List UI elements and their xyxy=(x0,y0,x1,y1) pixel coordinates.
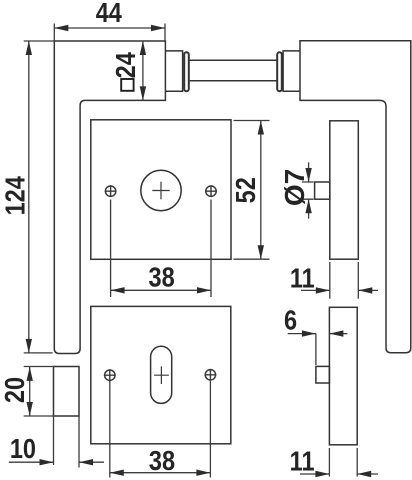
dim 20 line xyxy=(29,367,31,416)
dim 38 lower extension lines xyxy=(110,381,211,478)
dim 38 lower line xyxy=(110,472,211,474)
dim 44 extension lines xyxy=(54,24,165,43)
label sq24 square glyph xyxy=(121,79,133,91)
svg-text:38: 38 xyxy=(149,446,175,476)
svg-text:20: 20 xyxy=(0,377,30,403)
arrowheads dim 11 upper xyxy=(316,287,330,293)
handle bearing circle xyxy=(141,170,181,210)
dim 52 extension lines xyxy=(234,121,270,260)
svg-text:11: 11 xyxy=(290,446,315,476)
svg-text:24: 24 xyxy=(111,52,141,79)
handle neck left xyxy=(165,51,182,91)
spindle shaft xyxy=(189,60,277,80)
dim sq24 line xyxy=(142,41,144,100)
handle neck right xyxy=(283,51,300,91)
arrowheads dim 38 upper xyxy=(111,287,125,293)
upper rose side view xyxy=(330,121,359,259)
arrowheads dim 10 xyxy=(40,459,54,465)
spindle square side view xyxy=(315,182,330,199)
dim 6 extension line xyxy=(315,334,317,365)
screw lower-left xyxy=(104,369,116,381)
dim dia7 lines xyxy=(308,162,310,218)
thumbturn block front view xyxy=(54,367,80,417)
dim 10 lines xyxy=(9,461,104,463)
arrowheads dim 20 xyxy=(27,367,33,381)
bearing cross xyxy=(152,182,169,199)
dim 124 extension lines xyxy=(24,41,56,353)
svg-text:Ø7: Ø7 xyxy=(279,169,310,206)
dim 124 line xyxy=(28,41,30,353)
screw upper-right xyxy=(205,185,217,197)
dim 52 line xyxy=(260,121,262,260)
dim 10 extension lines xyxy=(54,416,80,468)
dim 11 lower extension lines xyxy=(329,448,357,477)
arrowheads dim 11 lower xyxy=(315,471,329,477)
dim 11 upper extension lines xyxy=(330,262,359,299)
arrowheads dim dia7 xyxy=(305,168,311,182)
dim 20 extension lines xyxy=(24,367,55,417)
dim 6 lines xyxy=(288,333,348,335)
dim 11 upper lines xyxy=(301,289,378,291)
lever handle side view (head + grip) xyxy=(300,41,411,353)
arrowheads dim 44 xyxy=(54,25,68,31)
lower rose side view xyxy=(329,307,357,445)
screw lower-right xyxy=(205,369,217,381)
svg-text:11: 11 xyxy=(290,263,315,293)
arrowheads dim 124 xyxy=(26,41,32,55)
dim dia7 extension lines xyxy=(302,182,314,199)
svg-text:44: 44 xyxy=(96,0,123,29)
dim 11 lower lines xyxy=(300,473,378,475)
dim 38 upper extension lines xyxy=(111,200,211,298)
svg-text:124: 124 xyxy=(1,176,31,216)
arrowheads dim sq24 xyxy=(140,41,146,55)
svg-text:52: 52 xyxy=(231,177,261,203)
cylinder stub side view xyxy=(316,366,330,383)
collar ring right xyxy=(277,52,282,91)
arrowheads dim 6 xyxy=(302,330,316,336)
PZ cylinder hole xyxy=(151,346,172,403)
svg-text:38: 38 xyxy=(149,263,175,293)
upper rose front view xyxy=(91,120,231,259)
arrowheads dim 38 lower xyxy=(110,470,124,476)
lever handle front view (head + grip) xyxy=(54,41,165,354)
svg-text:10: 10 xyxy=(10,434,36,464)
dim 44 line xyxy=(54,27,165,29)
lower rose front view (key rose) xyxy=(91,306,231,443)
svg-text:6: 6 xyxy=(284,306,297,336)
PZ hole cross xyxy=(154,366,169,384)
screw upper-left xyxy=(105,185,117,197)
dim 38 upper line xyxy=(111,289,211,291)
arrowheads dim 52 xyxy=(258,121,264,135)
collar ring left xyxy=(184,52,189,91)
